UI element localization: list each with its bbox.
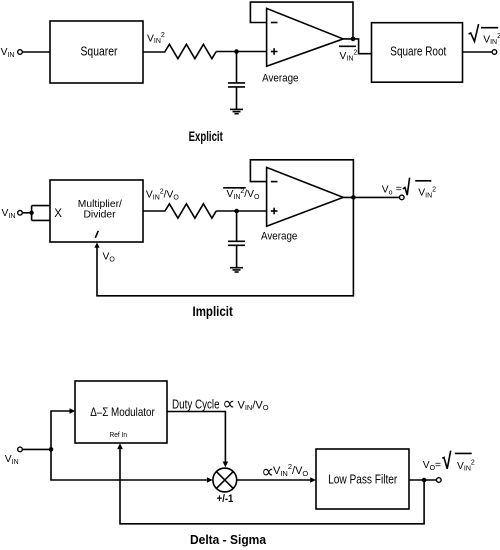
svg-text:Δ–Σ Modulator: Δ–Σ Modulator <box>90 405 155 419</box>
svg-text:Vo: Vo <box>382 185 393 197</box>
svg-text:Duty Cycle: Duty Cycle <box>172 397 220 411</box>
svg-text:=: = <box>396 184 402 195</box>
svg-text:Ref In: Ref In <box>110 432 128 439</box>
svg-text:Average: Average <box>262 72 298 84</box>
svg-text:VIN: VIN <box>1 47 15 59</box>
svg-text:Average: Average <box>261 231 297 243</box>
svg-text:VIN2/VO: VIN2/VO <box>273 462 308 478</box>
svg-text:VIN2: VIN2 <box>483 33 500 46</box>
svg-text:Explicit: Explicit <box>189 129 223 144</box>
svg-text:VIN2: VIN2 <box>340 50 358 63</box>
svg-text:∝: ∝ <box>222 393 235 413</box>
svg-text:VIN: VIN <box>2 208 16 220</box>
svg-text:Delta - Sigma: Delta - Sigma <box>190 532 267 547</box>
svg-text:Low Pass Filter: Low Pass Filter <box>328 472 397 486</box>
svg-text:X: X <box>54 208 62 220</box>
svg-text:VO: VO <box>103 252 116 264</box>
svg-text:VIN: VIN <box>5 454 19 466</box>
svg-text:VO=: VO= <box>423 460 441 472</box>
svg-text:VIN2: VIN2 <box>457 460 475 473</box>
svg-text:VIN2: VIN2 <box>418 187 436 200</box>
svg-text:Squarer: Squarer <box>81 45 118 59</box>
svg-text:+/-1: +/-1 <box>217 493 234 505</box>
svg-text:Square Root: Square Root <box>390 44 446 58</box>
svg-text:VIN2: VIN2 <box>147 32 165 45</box>
svg-text:VIN2/VO: VIN2/VO <box>146 189 180 202</box>
svg-text:VIN/VO: VIN/VO <box>238 399 269 412</box>
svg-text:Implicit: Implicit <box>193 304 234 319</box>
svg-text:VIN2/VO: VIN2/VO <box>227 188 261 201</box>
svg-text:Divider: Divider <box>84 210 117 221</box>
